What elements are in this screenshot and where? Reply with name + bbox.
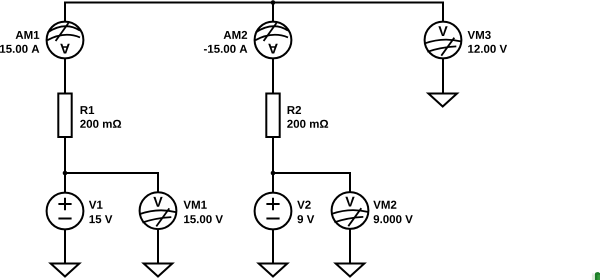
wire AM1 top stub — [64, 2, 66, 22]
value 200 mohm R1 — [80, 120, 121, 128]
value 15 V — [90, 215, 113, 223]
wire VM2 to ground — [349, 229, 351, 264]
wire VM3 top stub — [442, 2, 444, 22]
wire V1 to ground — [64, 229, 66, 263]
value 200 mohm R2 — [287, 120, 328, 128]
value 9.000 V — [374, 215, 413, 223]
wire top bus — [65, 2, 443, 4]
ground below VM2 — [336, 264, 365, 277]
wire AM2 top stub — [272, 3, 274, 22]
label VM3 — [468, 31, 491, 39]
wire AM2 to R2 — [272, 58, 274, 93]
node junction mid — [271, 171, 276, 176]
wire left bus — [65, 172, 158, 174]
ammeter AM1 — [47, 22, 84, 59]
voltage source V1 — [47, 193, 84, 230]
wire node to V1 — [64, 173, 66, 193]
label V2 — [297, 201, 311, 209]
value 9 V — [298, 215, 315, 223]
wire R2 to node — [272, 137, 274, 173]
wire AM1 to R1 — [64, 58, 66, 93]
wire VM3 to ground — [442, 58, 444, 93]
voltmeter VM3 — [425, 22, 462, 59]
voltmeter VM2 — [332, 192, 369, 229]
wire VM1 to ground — [157, 229, 159, 263]
ground below VM1 — [144, 264, 173, 277]
watermark logo fragment — [592, 272, 600, 280]
ground below VM3 — [428, 94, 457, 107]
wire R1 to node — [64, 137, 66, 173]
ground below V1 — [51, 264, 80, 277]
label AM1 — [16, 31, 40, 39]
voltage source V2 — [255, 193, 292, 230]
resistor R2 — [266, 94, 279, 138]
label R2 — [288, 106, 301, 114]
wire V2 to ground — [272, 229, 274, 263]
wire down to VM2 — [349, 172, 351, 192]
ground below V2 — [259, 264, 288, 277]
label R1 — [81, 106, 95, 114]
wire node to V2 — [272, 173, 274, 193]
node junction left — [63, 171, 68, 176]
wire down to VM1 — [157, 172, 159, 192]
resistor R1 — [58, 94, 71, 138]
wire mid bus — [273, 172, 350, 174]
value 15.00 V — [184, 215, 223, 223]
value 12.00 V — [468, 45, 507, 53]
value -15.00 A — [204, 45, 247, 53]
label VM1 — [183, 201, 206, 209]
voltmeter VM1 — [140, 192, 177, 229]
label VM2 — [373, 201, 396, 209]
value 15.00 A — [0, 45, 39, 53]
label AM2 — [224, 31, 248, 39]
node junction top — [271, 0, 276, 5]
label V1 — [89, 201, 103, 209]
ammeter AM2 — [255, 22, 292, 59]
